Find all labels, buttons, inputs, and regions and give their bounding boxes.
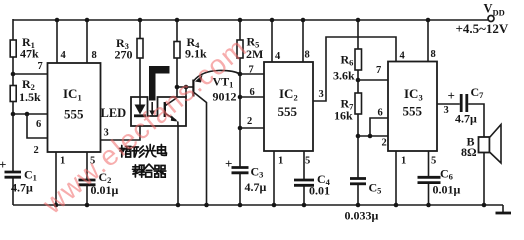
pin labels IC1 — [34, 50, 109, 167]
resistor R2 — [10, 77, 41, 104]
wire IC2 pin3 to IC3 pin4 — [313, 37, 396, 101]
wire pin6-pin2 tie — [27, 114, 48, 138]
wire coupler right wall stub — [185, 87, 187, 97]
capacitor C4 — [294, 172, 331, 198]
phototransistor — [164, 98, 178, 126]
op IC1 555 box — [48, 63, 101, 152]
svg-text:C6: C6 — [440, 167, 453, 182]
svg-text:C3: C3 — [251, 165, 264, 180]
slot vane — [149, 66, 170, 101]
wire IC1 pin6 — [13, 113, 48, 115]
svg-text:555: 555 — [278, 104, 298, 119]
svg-text:0.01μ: 0.01μ — [433, 183, 461, 197]
pin labels IC3 — [376, 49, 449, 167]
resistor R1 — [10, 35, 39, 61]
wire IC1 pin8 — [86, 20, 88, 63]
wire speaker to rail — [483, 153, 485, 206]
svg-text:9012: 9012 — [213, 90, 237, 104]
svg-text:3: 3 — [444, 105, 449, 116]
node pin6 tie — [11, 112, 16, 117]
capacitor C2 — [79, 170, 119, 197]
svg-text:V: V — [484, 2, 493, 16]
label coupler chinese line2 耦合器 — [133, 164, 166, 177]
label coupler chinese line1 槽形光电 — [120, 145, 167, 158]
resistor R4 — [174, 35, 207, 61]
LED diode — [134, 97, 146, 116]
wire top VDD rail — [13, 19, 488, 21]
wire IC3 pin1 — [395, 151, 397, 205]
svg-text:2: 2 — [247, 116, 252, 127]
svg-text:4: 4 — [275, 51, 281, 62]
wire IC2 pin5 — [303, 151, 305, 205]
svg-text:C5: C5 — [369, 181, 382, 196]
speaker B — [461, 125, 501, 164]
svg-text:4: 4 — [400, 51, 406, 62]
wire IC3 pin7 — [358, 79, 388, 81]
svg-text:8: 8 — [431, 49, 436, 60]
resistor R3 — [115, 36, 144, 62]
svg-text:+: + — [448, 88, 455, 103]
svg-text:7: 7 — [38, 61, 43, 72]
wire collector node — [177, 86, 193, 88]
wire IC2 pin4 — [271, 20, 273, 62]
op IC3 555 box — [388, 62, 437, 152]
node R1-R2-pin7 — [11, 72, 16, 77]
wire bottom ground rail — [13, 204, 503, 206]
svg-text:6: 6 — [36, 119, 41, 130]
wire IC1 pin5 — [86, 152, 88, 205]
svg-text:2: 2 — [34, 145, 39, 156]
svg-text:1: 1 — [278, 156, 283, 167]
svg-text:1: 1 — [60, 156, 65, 167]
wire IC2 pin7 — [240, 73, 264, 75]
svg-text:555: 555 — [403, 104, 423, 119]
svg-text:3.6k: 3.6k — [333, 69, 355, 83]
transistor VT1 — [192, 70, 240, 205]
svg-text:555: 555 — [64, 107, 84, 122]
capacitor C6 — [418, 167, 461, 197]
wire R3 chain — [139, 19, 141, 97]
wire R5 chain — [239, 19, 241, 205]
svg-text:4.7μ: 4.7μ — [245, 180, 267, 194]
svg-text:3: 3 — [319, 89, 324, 100]
svg-text:DD: DD — [493, 8, 505, 18]
svg-text:16k: 16k — [334, 109, 353, 123]
svg-text:5: 5 — [305, 156, 310, 167]
svg-text:1: 1 — [401, 156, 406, 167]
svg-text:7: 7 — [249, 65, 254, 76]
wire C7 to speaker — [468, 104, 484, 137]
svg-text:8: 8 — [92, 50, 97, 61]
svg-text:1.5k: 1.5k — [19, 90, 41, 104]
svg-text:4.7μ: 4.7μ — [455, 112, 477, 126]
wire IC1 pin1 — [55, 152, 57, 205]
wire R6 R7 chain — [357, 19, 359, 205]
vane arrow — [149, 102, 155, 116]
wire IC3 pin6 pin2 tie — [358, 118, 388, 136]
resistor R7 — [334, 93, 362, 123]
op IC2 555 box — [264, 62, 313, 151]
ground — [496, 205, 512, 213]
slot photocoupler box — [131, 97, 186, 126]
svg-text:6: 6 — [250, 87, 255, 98]
svg-text:R6: R6 — [341, 53, 354, 68]
svg-text:4: 4 — [61, 50, 67, 61]
svg-text:6: 6 — [378, 108, 383, 119]
wire IC1 pin3 to LED — [101, 116, 141, 140]
wire IC2 pin1 — [273, 151, 275, 205]
wire IC3 pin5 — [428, 151, 430, 205]
svg-text:LED: LED — [101, 106, 127, 120]
capacitor C1 — [0, 157, 37, 195]
capacitor C7 — [448, 85, 485, 126]
svg-text:C7: C7 — [471, 85, 485, 100]
svg-text:47k: 47k — [20, 47, 39, 61]
svg-text:+: + — [225, 156, 232, 171]
svg-text:+: + — [0, 157, 6, 172]
svg-text:8: 8 — [305, 50, 310, 61]
wire IC1 pin4 — [56, 20, 58, 63]
svg-text:5: 5 — [431, 156, 436, 167]
wire IC3 pin3 to C7 — [437, 103, 460, 105]
svg-text:2: 2 — [382, 138, 387, 149]
wire IC3 pin8 — [427, 20, 429, 62]
capacitor C3 — [225, 156, 267, 194]
svg-text:+4.5~12V: +4.5~12V — [456, 21, 509, 36]
wire IC2 pin2 — [240, 127, 264, 129]
VDD terminal — [456, 2, 509, 37]
resistor R5 — [237, 35, 263, 62]
svg-text:8Ω: 8Ω — [461, 145, 477, 159]
svg-text:270: 270 — [115, 48, 133, 62]
svg-text:0.01: 0.01 — [309, 184, 330, 198]
wire left rail segments — [12, 19, 14, 205]
wire IC1 pin7 — [13, 73, 48, 75]
wire R4 chain to collector node — [176, 19, 178, 97]
wire phototransistor emitter to rail — [177, 126, 179, 205]
wire IC2 pin8 — [302, 20, 304, 62]
svg-text:0.033μ: 0.033μ — [345, 209, 379, 223]
capacitor C5 — [345, 179, 382, 223]
svg-text:7: 7 — [376, 65, 381, 76]
wire IC2 pin6 — [240, 96, 264, 98]
resistor R6 — [333, 49, 362, 83]
svg-text:4.7μ: 4.7μ — [11, 181, 33, 195]
pin labels IC2 — [247, 50, 324, 167]
